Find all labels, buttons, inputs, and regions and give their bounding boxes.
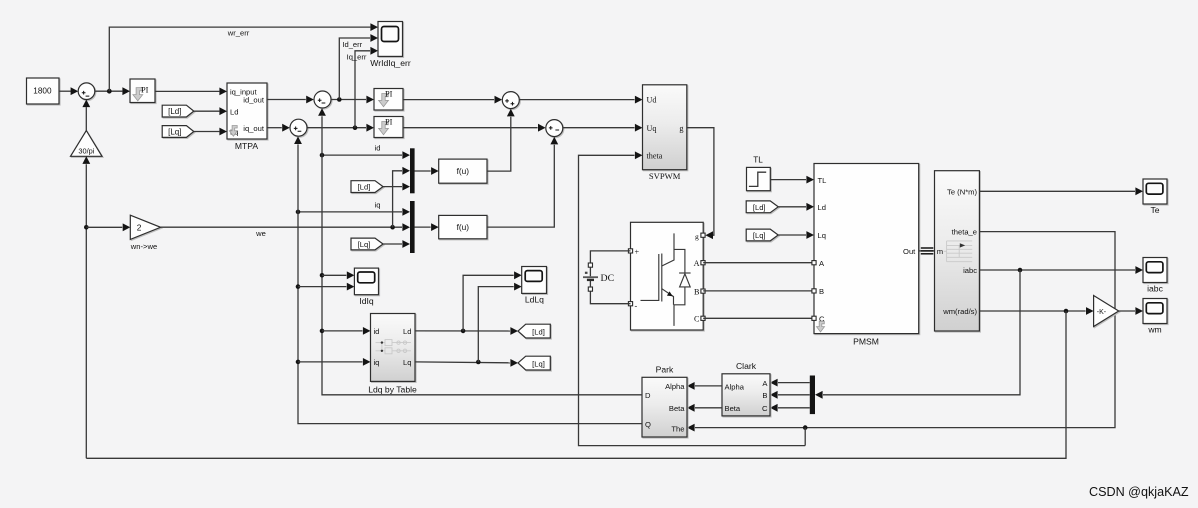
svg-text:SVPWM: SVPWM [649, 171, 681, 181]
svg-text:1800: 1800 [33, 87, 52, 96]
svg-text:30/pi: 30/pi [78, 146, 94, 155]
svg-text:Lq: Lq [403, 358, 411, 367]
svg-text:we: we [255, 229, 266, 238]
scope Te [1143, 179, 1167, 215]
wire feedback vertical to 30/pi [82, 156, 90, 458]
junction iq mux [296, 210, 301, 215]
wire MTPA id_out to sum id [267, 96, 314, 104]
from tag [Lq] for MTPA [162, 126, 194, 138]
svg-text:Lq: Lq [818, 231, 826, 240]
svg-text:Ldq by Table: Ldq by Table [368, 384, 417, 394]
wire sum3 to SVPWM Ud [520, 96, 643, 104]
wire SVPWM g to inverter [687, 128, 714, 239]
svg-text:CSDN @qkjaKAZ: CSDN @qkjaKAZ [1089, 485, 1189, 499]
wire theta branch down [804, 428, 806, 446]
wire PI1 to MTPA iq_input [155, 88, 227, 96]
svg-text:Id_err: Id_err [342, 40, 362, 49]
svg-text:Beta: Beta [725, 404, 741, 413]
svg-text:-: - [635, 302, 638, 311]
svg-text:TL: TL [818, 176, 827, 185]
svg-text:Ud: Ud [647, 96, 657, 105]
svg-text:B: B [694, 288, 700, 297]
subsystem MTPA [227, 83, 267, 151]
svg-text:Park: Park [656, 364, 674, 374]
svg-text:theta: theta [647, 152, 663, 161]
from tag [Lq] for PMSM [746, 229, 778, 241]
wire gain to wm scope [1119, 307, 1143, 315]
svg-text:[Lq]: [Lq] [753, 231, 766, 240]
svg-text:Alpha: Alpha [665, 382, 685, 391]
wire Park D to sum id feedback [318, 108, 642, 395]
wire demux to Clark C [770, 404, 810, 412]
svg-text:f(u): f(u) [457, 166, 470, 176]
PI controller q axis [374, 117, 403, 138]
svg-text:Uq: Uq [647, 124, 657, 133]
gain wn->we [130, 215, 161, 251]
wire f(u)2 to sum4 [487, 137, 558, 227]
svg-text:iq: iq [375, 200, 381, 209]
svg-text:A: A [694, 259, 700, 268]
svg-text:TL: TL [753, 156, 763, 165]
wire sum id to PI d [331, 96, 374, 104]
wire sum4 to SVPWM Uq [563, 124, 643, 132]
wire id branch to mux1 [322, 144, 410, 159]
svg-text:The: The [671, 424, 684, 433]
svg-text:WrIdIq_err: WrIdIq_err [370, 58, 411, 68]
svg-text:[Ld]: [Ld] [168, 107, 181, 116]
scope IdIq [354, 268, 378, 306]
mux2 [410, 201, 415, 253]
svg-text:id_out: id_out [243, 96, 265, 105]
wire 30/pi to sum1 [82, 100, 90, 131]
svg-text:iq: iq [374, 358, 380, 367]
wire iq to Ldq table [298, 358, 371, 366]
wire we from gain to mux2 [161, 223, 410, 238]
junction theta branch [803, 425, 808, 430]
goto tag [Ld] [518, 324, 550, 338]
svg-text:-K-: -K- [1097, 309, 1107, 316]
svg-text:[Lq]: [Lq] [358, 240, 371, 249]
svg-text:iabc: iabc [1147, 283, 1163, 293]
wire wm feedback long [86, 311, 1066, 458]
wire Ld to goto tag [415, 327, 518, 335]
scope WrIdIq_err [370, 22, 411, 69]
wire feedback to gain wn->we [86, 223, 130, 231]
svg-text:theta_e: theta_e [952, 228, 977, 237]
wire wr_err to scope [109, 23, 378, 91]
mux1 [410, 148, 415, 193]
wire Id_err to scope [339, 34, 378, 99]
wire Clark Beta to Park [687, 404, 722, 412]
gain -K- [1094, 296, 1119, 327]
junction iq to Ldq table [296, 360, 301, 365]
svg-text:PI: PI [141, 86, 149, 95]
wire id to Ldq table [322, 327, 371, 335]
svg-text:iq_out: iq_out [243, 124, 265, 133]
sum block speed error [78, 83, 95, 100]
svg-text:id: id [375, 144, 381, 153]
gain 30/pi [71, 131, 103, 157]
wire [Lq] to mux2 [383, 240, 410, 248]
subsystem SVPWM [643, 85, 687, 181]
wire we branch to mux1 [393, 167, 410, 227]
sum block id error [314, 91, 331, 108]
svg-text:[Ld]: [Ld] [753, 203, 766, 212]
wire demux to Clark B [770, 391, 810, 399]
svg-text:id: id [374, 327, 380, 336]
bus wire PMSM Out to selector [919, 248, 935, 254]
junction after sum1 [107, 89, 112, 94]
svg-text:g: g [695, 232, 699, 241]
junction Id_err [337, 97, 342, 102]
wire theta_e to Park [687, 232, 1115, 432]
scope iabc [1143, 258, 1167, 294]
IGBT and diode icon [641, 233, 691, 326]
from tag [Ld] for MTPA [162, 105, 194, 117]
wire inverter A to PMSM [703, 262, 814, 264]
svg-text:Ld: Ld [818, 203, 826, 212]
wire Ld to LdLq scope [463, 271, 522, 331]
svg-text:Ld: Ld [403, 327, 411, 336]
wire iabc to scope [979, 266, 1143, 274]
junction we branch [390, 225, 395, 230]
junction id to Ldq table [320, 329, 325, 334]
scope wm [1143, 299, 1167, 335]
svg-text:wm(rad/s): wm(rad/s) [942, 307, 977, 316]
wire iabc branch to demux [815, 270, 1020, 399]
DC voltage source [583, 251, 631, 304]
PMSM port squares [812, 261, 816, 321]
wire theta to SVPWM [579, 151, 806, 445]
subsystem Ldq by Table [368, 314, 417, 395]
svg-text:[Lq]: [Lq] [532, 359, 545, 368]
inverter port squares [628, 233, 705, 320]
wire Park Q to sum iq feedback [294, 136, 642, 423]
from tag [Ld] for mux1 [351, 181, 383, 193]
svg-text:MTPA: MTPA [235, 141, 259, 151]
wire TL to PMSM [770, 176, 814, 184]
svg-text:PI: PI [385, 89, 393, 98]
wire mux2 to f(u)2 [415, 223, 439, 231]
wire [Ld] to mux1 [383, 183, 410, 191]
svg-text:f(u): f(u) [457, 222, 470, 232]
svg-text:C: C [694, 315, 700, 324]
wire wm to gain [979, 307, 1093, 315]
sum block iq error [290, 119, 307, 136]
wire sum1 to PI1 [95, 87, 130, 95]
svg-text:m: m [937, 247, 943, 256]
svg-text:D: D [645, 391, 651, 400]
svg-text:[Lq]: [Lq] [168, 127, 181, 136]
svg-text:Out: Out [903, 247, 916, 256]
PI controller d axis [374, 89, 403, 111]
svg-text:B: B [819, 287, 824, 296]
svg-text:Q: Q [645, 420, 651, 429]
wire mux1 to f(u)1 [415, 167, 439, 175]
junction id to IdIq scope [320, 273, 325, 278]
wire iq to IdIq scope [298, 283, 354, 291]
junction wm feedback [1064, 309, 1069, 314]
wire Te to scope [979, 187, 1143, 195]
svg-text:IdIq: IdIq [359, 296, 374, 306]
wire sum iq to PI q [307, 124, 374, 132]
svg-text:+: + [635, 248, 640, 257]
svg-text:g: g [679, 124, 683, 133]
junction Ld branch [461, 329, 466, 334]
wire Iq_err to scope [347, 47, 378, 128]
wire iq branch to mux2 [298, 200, 410, 216]
Fcn f(u) q axis [439, 215, 487, 238]
subsystem Park [642, 364, 687, 437]
junction id mux [320, 153, 325, 158]
svg-text:Iq_err: Iq_err [347, 52, 367, 61]
junction iabc branch [1018, 268, 1023, 273]
inverter bridge block [631, 222, 704, 330]
subsystem Clark [722, 361, 770, 416]
svg-text:LdLq: LdLq [525, 295, 544, 305]
sum block Uq [546, 120, 563, 137]
wire PI q to sum4 [403, 124, 546, 132]
PI controller speed [130, 79, 155, 103]
wire [Lq] to MTPA [194, 128, 227, 136]
svg-text:[Ld]: [Ld] [358, 183, 371, 192]
svg-text:Ld: Ld [230, 108, 238, 117]
svg-text:DC: DC [601, 273, 615, 284]
wire [Ld] to PMSM [778, 203, 814, 211]
measurement selector block [935, 171, 980, 331]
constant 1800 [27, 78, 60, 104]
junction iq to IdIq scope [296, 284, 301, 289]
from tag [Ld] for PMSM [746, 201, 778, 213]
svg-text:wn->we: wn->we [130, 242, 157, 251]
wire Lq to goto tag [415, 359, 518, 367]
svg-text:PMSM: PMSM [853, 337, 879, 347]
Fcn f(u) d axis [439, 159, 487, 183]
junction Iq_err [353, 125, 358, 130]
svg-text:B: B [762, 391, 767, 400]
subsystem PMSM [814, 164, 919, 347]
wire inverter C to PMSM [703, 317, 814, 319]
svg-text:Te: Te [1150, 205, 1159, 215]
wire [Lq] to PMSM [778, 231, 814, 239]
wire f(u)1 to sum3 [487, 109, 515, 171]
Ldq table inner icon [376, 340, 412, 354]
wire inverter B to PMSM [703, 290, 814, 292]
wire id to IdIq scope [322, 271, 354, 279]
svg-text:Beta: Beta [669, 404, 685, 413]
step source TL [747, 156, 771, 191]
wire Lq to LdLq scope [478, 283, 521, 362]
wire PI d to sum3 [403, 96, 502, 104]
svg-text:Clark: Clark [736, 361, 757, 371]
from tag [Lq] for mux2 [351, 238, 383, 250]
wire MTPA iq_out to sum iq [267, 124, 290, 132]
wire Clark Alpha to Park [687, 382, 722, 390]
svg-text:iabc: iabc [963, 266, 977, 275]
svg-text:wr_err: wr_err [227, 28, 250, 37]
svg-text:2: 2 [137, 222, 142, 232]
demux iabc [810, 376, 815, 415]
wire demux to Clark A [770, 379, 810, 387]
svg-text:[Ld]: [Ld] [532, 327, 545, 336]
wire [Ld] to MTPA [194, 107, 227, 115]
selector icon [944, 241, 972, 262]
goto tag [Lq] [518, 356, 550, 370]
svg-text:Te (N*m): Te (N*m) [947, 188, 977, 197]
junction feedback to gain2 [84, 225, 89, 230]
svg-text:C: C [762, 404, 768, 413]
junction Lq branch [476, 360, 481, 365]
sum block Ud [502, 92, 519, 109]
wire constant to sum1 [59, 87, 78, 95]
svg-text:Alpha: Alpha [725, 382, 745, 391]
scope LdLq [522, 267, 547, 305]
svg-text:wm: wm [1147, 324, 1161, 334]
svg-text:PI: PI [385, 118, 393, 127]
